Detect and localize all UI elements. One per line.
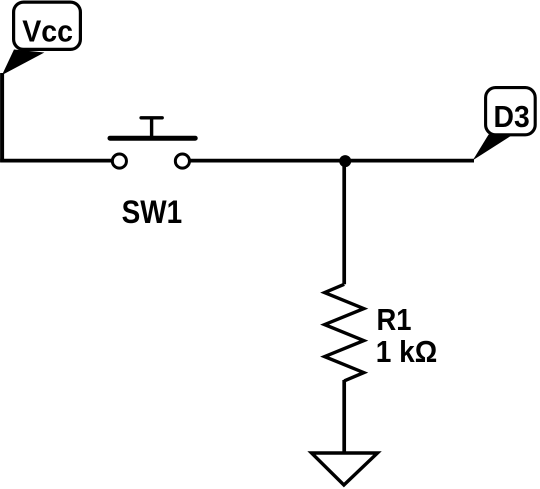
svg-text:D3: D3 xyxy=(494,99,530,134)
svg-text:1 kΩ: 1 kΩ xyxy=(376,334,438,369)
svg-text:R1: R1 xyxy=(377,302,412,337)
svg-text:SW1: SW1 xyxy=(122,194,183,230)
svg-text:Vcc: Vcc xyxy=(22,13,73,48)
